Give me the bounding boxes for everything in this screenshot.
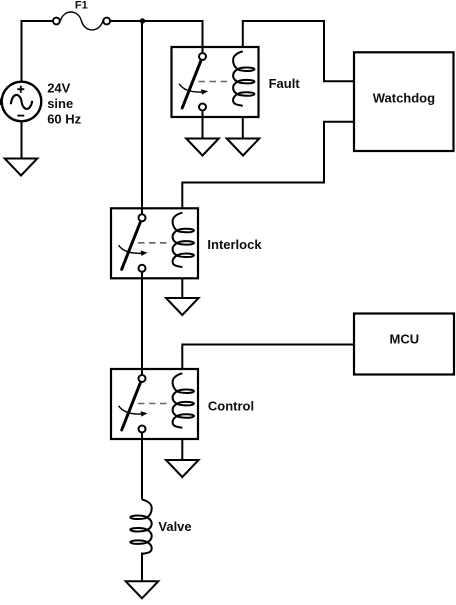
svg-text:Watchdog: Watchdog [373,91,435,106]
svg-text:Fault: Fault [269,76,301,91]
svg-text:Valve: Valve [158,519,191,534]
svg-text:Interlock: Interlock [207,237,262,252]
svg-text:24V: 24V [47,80,70,95]
svg-text:60 Hz: 60 Hz [47,111,81,126]
svg-text:Control: Control [208,398,254,413]
svg-text:F1: F1 [75,0,88,12]
svg-text:MCU: MCU [389,331,419,346]
svg-text:sine: sine [47,96,73,111]
